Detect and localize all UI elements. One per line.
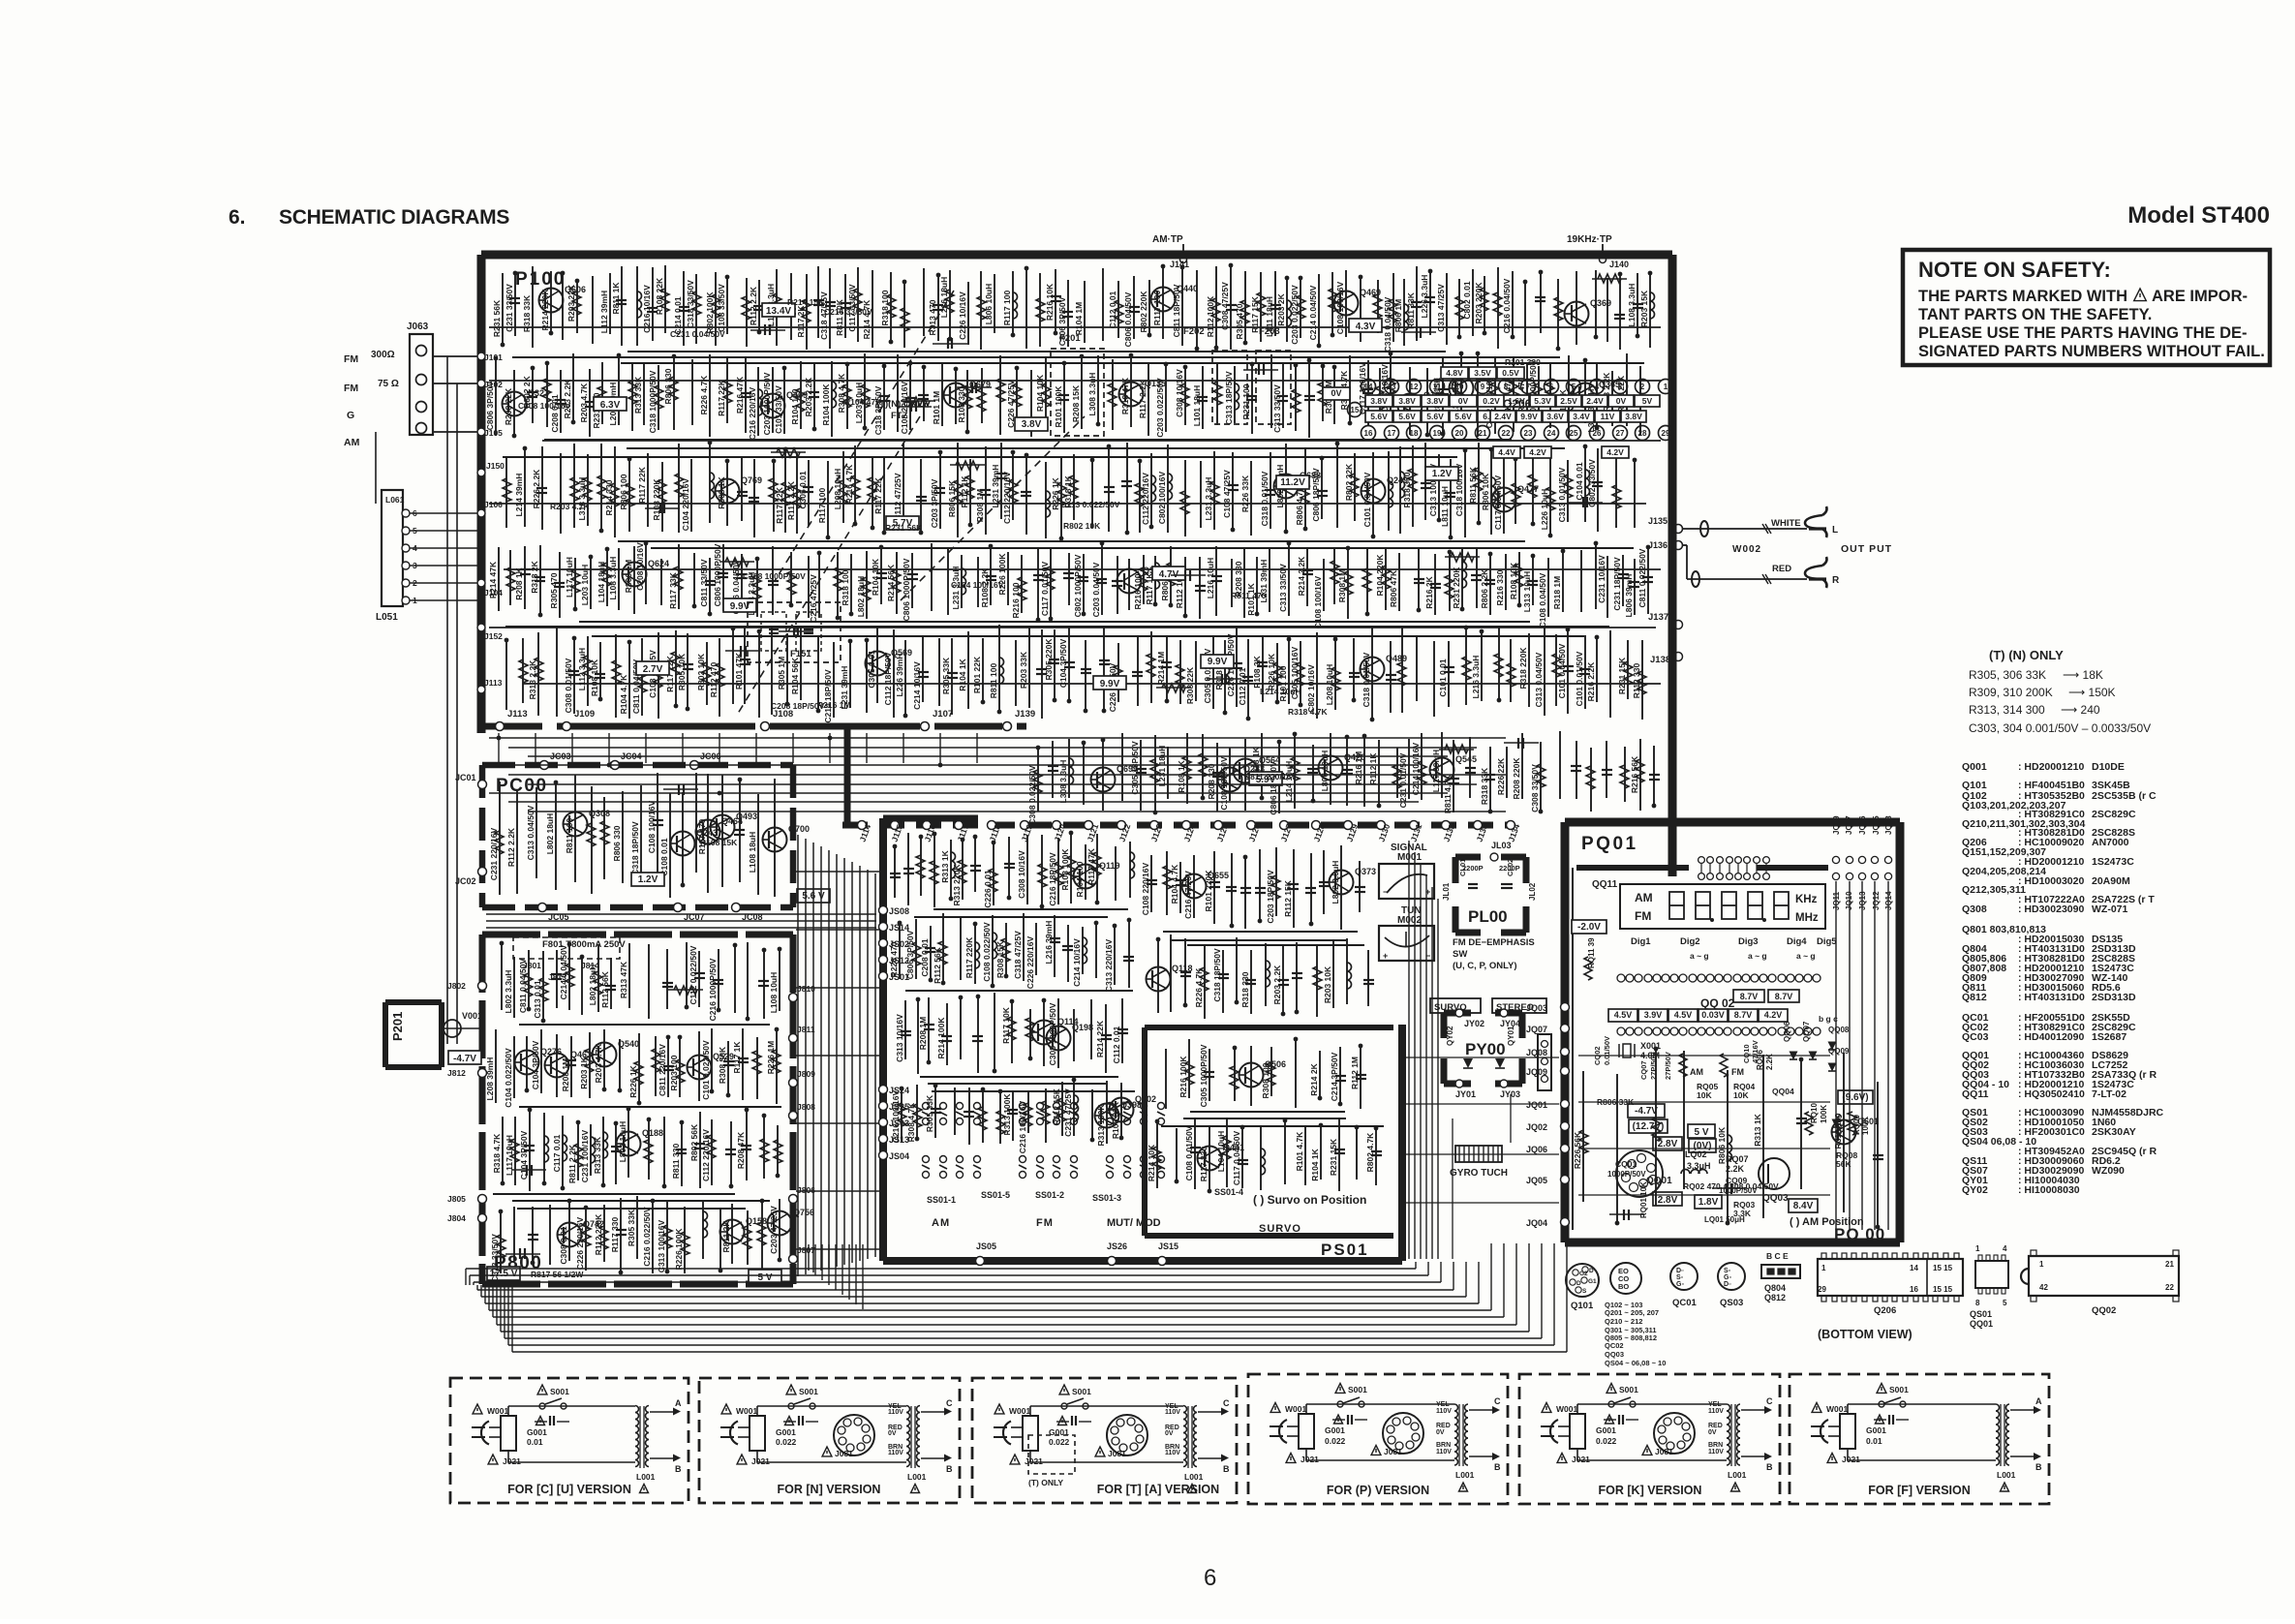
svg-text:C802 33/50V: C802 33/50V xyxy=(1587,459,1597,507)
svg-text:QS04 ~ 06,08 ~ 10: QS04 ~ 06,08 ~ 10 xyxy=(1605,1359,1666,1367)
svg-text:C305 1000P/50V: C305 1000P/50V xyxy=(1199,1044,1209,1107)
svg-text:8.7V: 8.7V xyxy=(1740,992,1759,1001)
svg-text:R305 33K: R305 33K xyxy=(627,1209,636,1246)
svg-text:R806 33K: R806 33K xyxy=(1597,1097,1635,1107)
svg-text:R313 2.2K: R313 2.2K xyxy=(528,659,537,699)
svg-text:24: 24 xyxy=(1547,429,1556,438)
svg-text:4.4V: 4.4V xyxy=(1498,447,1515,457)
svg-text:R309, 310 200K: R309, 310 200K xyxy=(1969,686,2053,699)
svg-text:110V: 110V xyxy=(888,1450,903,1456)
svg-text:J802: J802 xyxy=(447,981,466,991)
svg-text:JL03: JL03 xyxy=(1491,841,1512,850)
svg-text:C117 0.04/50V: C117 0.04/50V xyxy=(1493,475,1503,531)
svg-text:A: A xyxy=(675,1398,682,1408)
svg-text:R226 4.7K: R226 4.7K xyxy=(699,375,709,414)
svg-text:C203 1000P/50V: C203 1000P/50V xyxy=(762,372,772,435)
svg-text:1: 1 xyxy=(1975,1244,1980,1253)
svg-text:C104 3P/50V: C104 3P/50V xyxy=(1058,638,1068,688)
svg-text:C214 0.04/50V: C214 0.04/50V xyxy=(1308,285,1318,340)
svg-text:5: 5 xyxy=(2003,1299,2007,1307)
svg-text:Q700: Q700 xyxy=(788,824,810,834)
svg-text:110V: 110V xyxy=(1436,1408,1452,1415)
svg-text:R216 330: R216 330 xyxy=(1495,569,1505,605)
svg-text:C308 0.01: C308 0.01 xyxy=(559,1226,568,1264)
svg-text:R208 47K: R208 47K xyxy=(736,1131,746,1169)
svg-text:C313 33/50V: C313 33/50V xyxy=(1278,564,1288,612)
svg-text:C: C xyxy=(946,1398,953,1408)
svg-text:Q198: Q198 xyxy=(1072,1023,1093,1032)
svg-text:J139: J139 xyxy=(1015,709,1035,720)
svg-text:R112 56K: R112 56K xyxy=(933,946,942,984)
svg-text:C806 18P/50V: C806 18P/50V xyxy=(1311,468,1321,522)
svg-text:⟶ 150K: ⟶ 150K xyxy=(2068,686,2116,699)
svg-text:Q188: Q188 xyxy=(642,1128,663,1138)
svg-text:PQ01: PQ01 xyxy=(1581,834,1638,854)
svg-text:L208 10uH: L208 10uH xyxy=(833,469,842,510)
svg-text:C216 0.022/50V: C216 0.022/50V xyxy=(642,1207,652,1267)
svg-text:C214 10/16V: C214 10/16V xyxy=(1072,938,1082,987)
svg-text:0V: 0V xyxy=(1436,1429,1445,1436)
svg-text:R313 100K: R313 100K xyxy=(1002,1093,1012,1136)
svg-text:RQ02 470: RQ02 470 xyxy=(1683,1181,1721,1191)
svg-text:21: 21 xyxy=(2165,1260,2174,1269)
svg-text:Dig3: Dig3 xyxy=(1738,936,1759,947)
svg-text:C806 18P/50V: C806 18P/50V xyxy=(1269,761,1278,815)
svg-text:10K: 10K xyxy=(1697,1090,1712,1100)
svg-text:1: 1 xyxy=(1664,383,1668,391)
svg-text:R313 1K: R313 1K xyxy=(940,849,950,882)
svg-text:JY02: JY02 xyxy=(1464,1019,1484,1028)
svg-text:OUT PUT: OUT PUT xyxy=(1841,543,1892,555)
svg-text:C112 0.01: C112 0.01 xyxy=(1108,291,1117,328)
svg-text:R313 1K: R313 1K xyxy=(1753,1113,1762,1146)
svg-text:GYRO TUCH: GYRO TUCH xyxy=(1450,1168,1508,1179)
svg-text:(BOTTOM VIEW): (BOTTOM VIEW) xyxy=(1818,1328,1912,1341)
svg-text:R108 2K: R108 2K xyxy=(1252,655,1262,688)
svg-text:R104 220K: R104 220K xyxy=(1375,554,1385,597)
svg-text:R112 1M: R112 1M xyxy=(1350,1057,1360,1089)
svg-text:100K: 100K xyxy=(1820,1105,1828,1123)
svg-text:JQ07: JQ07 xyxy=(1526,1025,1547,1034)
svg-text:C203 18P/50V: C203 18P/50V xyxy=(1266,870,1275,924)
svg-text:R811 56K: R811 56K xyxy=(1468,466,1478,504)
svg-text:G: G xyxy=(347,410,354,421)
svg-text:W001: W001 xyxy=(1009,1406,1030,1416)
svg-text:C108 0.022/50V: C108 0.022/50V xyxy=(982,922,992,982)
svg-text:D: D xyxy=(1576,1280,1581,1287)
svg-text:Q201 ~ 205, 207: Q201 ~ 205, 207 xyxy=(1605,1308,1659,1317)
svg-text:6.: 6. xyxy=(229,206,246,229)
svg-text:⟶ 18K: ⟶ 18K xyxy=(2063,668,2103,682)
svg-text:C203 3P/50V: C203 3P/50V xyxy=(930,478,939,528)
svg-text:R104 4.7K: R104 4.7K xyxy=(619,674,628,714)
svg-text:L318 3.3uH: L318 3.3uH xyxy=(577,477,587,521)
svg-text:5.3V: 5.3V xyxy=(1534,396,1551,406)
svg-text:C313 0.04/50V: C313 0.04/50V xyxy=(1534,652,1544,707)
svg-text:R811 2.2K: R811 2.2K xyxy=(567,1144,577,1183)
svg-text:R811 100: R811 100 xyxy=(565,818,574,854)
svg-text:C101 0.01: C101 0.01 xyxy=(1438,659,1448,696)
svg-text:F201: F201 xyxy=(1059,333,1081,344)
svg-text:R117 330: R117 330 xyxy=(1199,1147,1209,1182)
svg-text:C203 0.022/50V: C203 0.022/50V xyxy=(1290,285,1300,345)
svg-text:6: 6 xyxy=(1204,1565,1216,1591)
svg-text:J805: J805 xyxy=(447,1194,466,1204)
svg-text:C318 33/50V: C318 33/50V xyxy=(686,280,695,328)
svg-text:L806 10uH: L806 10uH xyxy=(984,284,994,325)
svg-text:R811 1K: R811 1K xyxy=(611,282,621,315)
svg-text:B: B xyxy=(946,1464,953,1474)
svg-text:11: 11 xyxy=(1433,383,1442,391)
svg-text:QC02: QC02 xyxy=(1605,1341,1624,1350)
svg-text:C318 47/25V: C318 47/25V xyxy=(1013,931,1023,979)
svg-text:R811 100: R811 100 xyxy=(989,663,998,699)
svg-text:C108 100/16V: C108 100/16V xyxy=(1313,575,1323,628)
svg-text:C216 33/50V: C216 33/50V xyxy=(824,307,872,317)
svg-text:R203 2K: R203 2K xyxy=(1276,292,1286,325)
svg-text:Q802: Q802 xyxy=(1135,1094,1156,1104)
svg-text:R305 33K: R305 33K xyxy=(925,1094,934,1132)
svg-text:C216 1000P/50V: C216 1000P/50V xyxy=(708,958,718,1021)
svg-text:R811 330: R811 330 xyxy=(671,1144,681,1180)
svg-text:FOR [K] VERSION: FOR [K] VERSION xyxy=(1599,1484,1702,1497)
svg-text:C313 0.04/50V: C313 0.04/50V xyxy=(526,805,535,860)
svg-text:C101 0.04/50V: C101 0.04/50V xyxy=(1557,643,1567,698)
svg-text:7: 7 xyxy=(1526,383,1531,391)
svg-text:C318 0.01/50V: C318 0.01/50V xyxy=(1362,652,1371,707)
svg-text:L001: L001 xyxy=(907,1472,927,1482)
svg-text:Dig2: Dig2 xyxy=(1680,936,1700,947)
svg-text:R214 47K: R214 47K xyxy=(488,561,498,598)
svg-text:J081: J081 xyxy=(835,1449,853,1458)
svg-text:R216 10K: R216 10K xyxy=(1045,283,1055,321)
svg-text:L108 10uH: L108 10uH xyxy=(769,972,779,1014)
svg-text:C318 18P/50V: C318 18P/50V xyxy=(630,821,640,875)
svg-text:R101 100K: R101 100K xyxy=(1054,385,1063,428)
svg-text:QQ02: QQ02 xyxy=(2092,1305,2116,1316)
svg-text:R214 22K: R214 22K xyxy=(1095,1020,1105,1057)
svg-text:R308 56K: R308 56K xyxy=(718,1046,727,1084)
svg-text:L051: L051 xyxy=(376,612,398,623)
svg-text:R208 1K: R208 1K xyxy=(514,567,524,599)
svg-text:R112 2.2K: R112 2.2K xyxy=(506,827,516,867)
svg-text:2.4V: 2.4V xyxy=(1586,396,1604,406)
svg-text:R104 10K: R104 10K xyxy=(871,558,880,596)
svg-text:C806 1000P/50V: C806 1000P/50V xyxy=(713,543,722,606)
svg-text:C313 33/50V: C313 33/50V xyxy=(1272,384,1282,433)
svg-text:27: 27 xyxy=(1616,429,1625,438)
svg-text:Q308: Q308 xyxy=(1962,904,1987,915)
svg-text:JQ18: JQ18 xyxy=(1884,815,1893,835)
svg-text:SURVO: SURVO xyxy=(1259,1223,1301,1235)
svg-text:9: 9 xyxy=(1481,383,1485,391)
svg-text:R226 1K: R226 1K xyxy=(1051,476,1060,509)
svg-text:R318 4.7K: R318 4.7K xyxy=(492,1133,502,1173)
svg-text:C313 33/50V: C313 33/50V xyxy=(490,1234,500,1282)
svg-text:110V: 110V xyxy=(1708,1449,1724,1455)
svg-text:⟶ 240: ⟶ 240 xyxy=(2061,703,2100,717)
svg-text:C811 220/16V: C811 220/16V xyxy=(658,1044,667,1096)
svg-text:R208 220K: R208 220K xyxy=(1512,757,1521,800)
svg-text:BRN: BRN xyxy=(1436,1442,1451,1449)
svg-text:QS01: QS01 xyxy=(1970,1309,1992,1319)
svg-text:C108 100/16V: C108 100/16V xyxy=(647,800,657,853)
svg-text:(U, C, P, ONLY): (U, C, P, ONLY) xyxy=(1453,961,1517,971)
svg-text:B: B xyxy=(2035,1462,2042,1472)
svg-text:C318 18P/50V: C318 18P/50V xyxy=(1212,948,1222,1002)
svg-text:FM: FM xyxy=(1036,1217,1054,1229)
svg-text:110V: 110V xyxy=(1708,1408,1724,1415)
svg-text:L112 3.3uH: L112 3.3uH xyxy=(577,648,587,690)
svg-text:Q373: Q373 xyxy=(1355,867,1376,876)
svg-text:C216 10/16V: C216 10/16V xyxy=(642,285,652,333)
svg-text:R112 2.2K: R112 2.2K xyxy=(786,480,796,520)
svg-text:R214 10K: R214 10K xyxy=(1147,1144,1156,1181)
svg-text:R308 4.7K: R308 4.7K xyxy=(906,1102,916,1142)
svg-text:a ~ g: a ~ g xyxy=(1796,951,1816,961)
svg-text:R104 10K: R104 10K xyxy=(1035,374,1045,412)
svg-text:R308 100: R308 100 xyxy=(1261,1062,1270,1098)
svg-text:L208 39mH: L208 39mH xyxy=(485,1057,495,1101)
svg-text:C108 0.01/50V: C108 0.01/50V xyxy=(1184,1125,1194,1180)
svg-text:5V: 5V xyxy=(1642,396,1653,406)
svg-text:C806 3P/50V: C806 3P/50V xyxy=(905,930,915,979)
svg-text:M001: M001 xyxy=(1397,852,1422,863)
svg-text:R117 470: R117 470 xyxy=(697,819,707,855)
svg-text:R231 15K: R231 15K xyxy=(1617,657,1627,694)
svg-text:Q756: Q756 xyxy=(793,1208,814,1217)
svg-text:4.3V: 4.3V xyxy=(1356,322,1376,332)
svg-text:R117 2K: R117 2K xyxy=(796,305,806,338)
svg-text:L214 39mH: L214 39mH xyxy=(514,474,524,517)
svg-text:WZ090: WZ090 xyxy=(2092,1165,2125,1177)
svg-text:R318 330: R318 330 xyxy=(1402,472,1412,507)
svg-text:J081: J081 xyxy=(1384,1447,1402,1456)
svg-text:FOR [N] VERSION: FOR [N] VERSION xyxy=(778,1483,881,1496)
svg-text:R817 56 1/2W: R817 56 1/2W xyxy=(531,1270,584,1279)
svg-text:W001: W001 xyxy=(736,1406,757,1416)
svg-text:8: 8 xyxy=(1504,383,1509,391)
svg-text:QQ11: QQ11 xyxy=(1962,1088,1989,1100)
svg-text:FOR (P) VERSION: FOR (P) VERSION xyxy=(1327,1484,1429,1497)
svg-text:L001: L001 xyxy=(1455,1470,1475,1480)
svg-text:110V: 110V xyxy=(1436,1449,1452,1455)
svg-text:C806 0.04/50V: C806 0.04/50V xyxy=(1123,291,1133,347)
svg-text:J021: J021 xyxy=(1572,1455,1590,1464)
svg-text:R313 100K: R313 100K xyxy=(1096,1104,1106,1147)
svg-text:R214 2K: R214 2K xyxy=(1309,1062,1319,1095)
svg-text:R117 47K: R117 47K xyxy=(1086,847,1096,885)
svg-text:17: 17 xyxy=(1388,429,1396,438)
svg-text:L811 10uH: L811 10uH xyxy=(1440,486,1450,527)
svg-text:R112 1K: R112 1K xyxy=(960,475,969,508)
svg-text:29: 29 xyxy=(1662,429,1670,438)
svg-text:R117 1K: R117 1K xyxy=(732,1041,742,1074)
svg-text:FOR [C] [U] VERSION: FOR [C] [U] VERSION xyxy=(507,1483,631,1496)
svg-text:L108 3.3uH: L108 3.3uH xyxy=(1627,284,1637,327)
svg-text:R308 15K: R308 15K xyxy=(995,940,1005,978)
svg-text:M002: M002 xyxy=(1397,915,1422,926)
svg-text:R203 4.7K: R203 4.7K xyxy=(594,1043,603,1083)
svg-text:: HD20001210: : HD20001210 xyxy=(2018,761,2084,773)
svg-text:Q489: Q489 xyxy=(1386,654,1407,663)
svg-text:C806 1000P/50V: C806 1000P/50V xyxy=(902,558,911,621)
svg-text:MUT/ MOD: MUT/ MOD xyxy=(1107,1217,1161,1229)
svg-text:C101 0.01/50V: C101 0.01/50V xyxy=(1575,651,1584,706)
svg-text:C108 0.04/50V: C108 0.04/50V xyxy=(1538,572,1547,628)
svg-text:300Ω: 300Ω xyxy=(371,350,395,360)
svg-text:JQ05: JQ05 xyxy=(1526,1176,1547,1185)
svg-text:2.8V: 2.8V xyxy=(1658,1195,1678,1206)
svg-text:J081: J081 xyxy=(1108,1449,1126,1458)
svg-text:WHITE: WHITE xyxy=(1771,518,1801,529)
svg-text:QY02: QY02 xyxy=(1962,1184,1988,1196)
svg-text:2SK30AY: 2SK30AY xyxy=(2092,1126,2136,1138)
svg-text:3.8V: 3.8V xyxy=(1022,419,1042,430)
svg-text:J152: J152 xyxy=(484,631,503,641)
svg-text:4.5V: 4.5V xyxy=(1614,1010,1633,1020)
svg-text:L308 3.3uH: L308 3.3uH xyxy=(1087,373,1097,416)
svg-text:W001: W001 xyxy=(1285,1404,1306,1414)
svg-text:QQ11: QQ11 xyxy=(1592,879,1618,890)
svg-text:: HD40012090: : HD40012090 xyxy=(2018,1031,2084,1043)
svg-text:C214 10/16V: C214 10/16V xyxy=(912,661,922,710)
svg-text:29: 29 xyxy=(1818,1285,1826,1294)
svg-text:L214 10uH: L214 10uH xyxy=(1260,687,1301,696)
svg-text:C112 47/25V: C112 47/25V xyxy=(893,473,903,520)
svg-text:R216 100K: R216 100K xyxy=(1178,1056,1188,1098)
svg-text:6.3V: 6.3V xyxy=(600,400,621,411)
svg-text:D▫: D▫ xyxy=(1676,1268,1684,1274)
svg-text:C313 18P/50V: C313 18P/50V xyxy=(1224,371,1234,425)
svg-text:R108 100K: R108 100K xyxy=(1060,848,1070,891)
svg-text:SW: SW xyxy=(1453,949,1467,960)
svg-text:R231 56K: R231 56K xyxy=(492,299,502,337)
svg-text:R811 470: R811 470 xyxy=(1231,591,1267,600)
svg-text:R226 1M: R226 1M xyxy=(766,1041,776,1075)
svg-text:C313 100/16V: C313 100/16V xyxy=(657,1219,666,1272)
svg-text:JQ19: JQ19 xyxy=(1832,815,1841,835)
svg-text:Q601: Q601 xyxy=(1857,1117,1879,1126)
svg-text:Q206: Q206 xyxy=(1503,397,1532,411)
svg-text:C214 18P/50V: C214 18P/50V xyxy=(823,669,833,723)
svg-text:QC03: QC03 xyxy=(1962,1031,1989,1043)
svg-text:28: 28 xyxy=(1638,429,1647,438)
svg-text:4.2V: 4.2V xyxy=(1606,447,1624,457)
svg-text:S001: S001 xyxy=(799,1387,818,1396)
svg-text:C313 10/16V: C313 10/16V xyxy=(895,1014,904,1062)
svg-text:C216 18P/50V: C216 18P/50V xyxy=(1048,852,1057,906)
svg-text:R313 47K: R313 47K xyxy=(619,961,628,998)
svg-text:18: 18 xyxy=(1410,429,1419,438)
svg-text:BO: BO xyxy=(1618,1282,1629,1291)
svg-text:C313 47/25V: C313 47/25V xyxy=(1436,284,1446,332)
svg-text:L313 10uH: L313 10uH xyxy=(1522,571,1532,613)
svg-text:PS01: PS01 xyxy=(1321,1241,1369,1259)
svg-text:Q206: Q206 xyxy=(1874,1305,1896,1316)
svg-text:23: 23 xyxy=(1524,429,1533,438)
svg-text:RED: RED xyxy=(1436,1423,1451,1429)
svg-text:R308 1M: R308 1M xyxy=(1337,569,1347,603)
svg-text:R318 4.7K: R318 4.7K xyxy=(1288,707,1328,717)
svg-text:R231 56K: R231 56K xyxy=(885,523,923,533)
svg-text:C203 0.04/50V: C203 0.04/50V xyxy=(1091,562,1101,617)
svg-text:C811 0.022/50V: C811 0.022/50V xyxy=(1637,548,1647,607)
svg-text:19: 19 xyxy=(1433,429,1442,438)
svg-text:R313, 314 300: R313, 314 300 xyxy=(1969,703,2045,717)
svg-text:0V: 0V xyxy=(1708,1429,1717,1436)
svg-text:R108 15K: R108 15K xyxy=(700,838,738,847)
svg-text:C112 0.022/50V: C112 0.022/50V xyxy=(688,945,698,1004)
svg-text:8.4V: 8.4V xyxy=(1793,1201,1814,1211)
svg-text:L802 3.3uH: L802 3.3uH xyxy=(1331,861,1340,904)
svg-text:AN7000: AN7000 xyxy=(2092,837,2129,848)
svg-text:R117 2.2K: R117 2.2K xyxy=(1138,379,1147,418)
svg-text:FM DE−EMPHASIS: FM DE−EMPHASIS xyxy=(1453,937,1535,948)
svg-text:W001: W001 xyxy=(1826,1404,1848,1414)
svg-text:C104 100/16V: C104 100/16V xyxy=(951,580,1004,590)
svg-text:L216 39mH: L216 39mH xyxy=(1044,921,1054,965)
svg-text:R806 10K: R806 10K xyxy=(1717,1126,1727,1164)
svg-text:L216 18uH: L216 18uH xyxy=(939,277,949,319)
svg-text:R112 330: R112 330 xyxy=(1632,663,1641,699)
svg-text:THE PARTS MARKED WITH: THE PARTS MARKED WITH xyxy=(1918,288,2127,305)
svg-text:47/16V: 47/16V xyxy=(1751,1040,1759,1063)
svg-text:L001: L001 xyxy=(1184,1472,1204,1482)
svg-text:MHz: MHz xyxy=(1795,912,1819,924)
svg-text:5.6V: 5.6V xyxy=(1370,412,1388,421)
svg-text:R216 2K: R216 2K xyxy=(1424,575,1434,608)
svg-text:R112 15K: R112 15K xyxy=(1052,1088,1061,1125)
svg-text:a ~ g: a ~ g xyxy=(1748,951,1767,961)
svg-text:12: 12 xyxy=(1410,383,1419,391)
svg-text:L226 10uH: L226 10uH xyxy=(1540,489,1549,531)
svg-text:75 Ω: 75 Ω xyxy=(378,379,399,389)
svg-text:R313 33K: R313 33K xyxy=(633,376,643,414)
svg-text:C208 10/16V: C208 10/16V xyxy=(635,542,645,591)
svg-text:QC01: QC01 xyxy=(1672,1298,1698,1308)
svg-text:R226 470: R226 470 xyxy=(889,941,899,977)
svg-text:R305 33K: R305 33K xyxy=(941,657,951,694)
svg-text:3.8V: 3.8V xyxy=(1625,412,1642,421)
svg-text:1.2V: 1.2V xyxy=(1432,469,1453,479)
svg-text:0.01/50V: 0.01/50V xyxy=(1603,1036,1611,1065)
svg-text:R308 1M: R308 1M xyxy=(975,489,985,523)
svg-text:SCHEMATIC DIAGRAMS: SCHEMATIC DIAGRAMS xyxy=(279,206,509,229)
svg-text:C231 0.01/50V: C231 0.01/50V xyxy=(1398,752,1408,808)
svg-text:AM: AM xyxy=(1690,1067,1703,1077)
svg-text:G▫: G▫ xyxy=(1676,1281,1684,1288)
svg-text:C112 220/16V: C112 220/16V xyxy=(701,1129,711,1181)
svg-text:R203 33K: R203 33K xyxy=(1019,651,1028,689)
svg-text:C216 47/25V: C216 47/25V xyxy=(1183,871,1193,919)
svg-text:R117 22K: R117 22K xyxy=(717,379,726,416)
svg-text:J106: J106 xyxy=(484,500,503,509)
svg-text:(T) (N) ONLY: (T) (N) ONLY xyxy=(1989,648,2064,662)
svg-text:2.5V: 2.5V xyxy=(1560,396,1577,406)
svg-text:C226 10/16V: C226 10/16V xyxy=(958,291,967,340)
svg-text:Q101: Q101 xyxy=(1571,1301,1594,1311)
svg-text:R214 4.7K: R214 4.7K xyxy=(862,299,872,339)
svg-text:R308 4.7K: R308 4.7K xyxy=(837,373,846,413)
svg-text:8.7V: 8.7V xyxy=(1734,1010,1753,1020)
svg-text:: HD30023090: : HD30023090 xyxy=(2018,904,2084,915)
svg-text:1.2V: 1.2V xyxy=(638,874,658,885)
svg-text:W001: W001 xyxy=(1556,1404,1577,1414)
svg-text:C318 0.04/50V: C318 0.04/50V xyxy=(1383,296,1392,352)
svg-text:C203 47/25V: C203 47/25V xyxy=(769,1206,779,1254)
svg-text:R226 1K: R226 1K xyxy=(628,1064,638,1097)
